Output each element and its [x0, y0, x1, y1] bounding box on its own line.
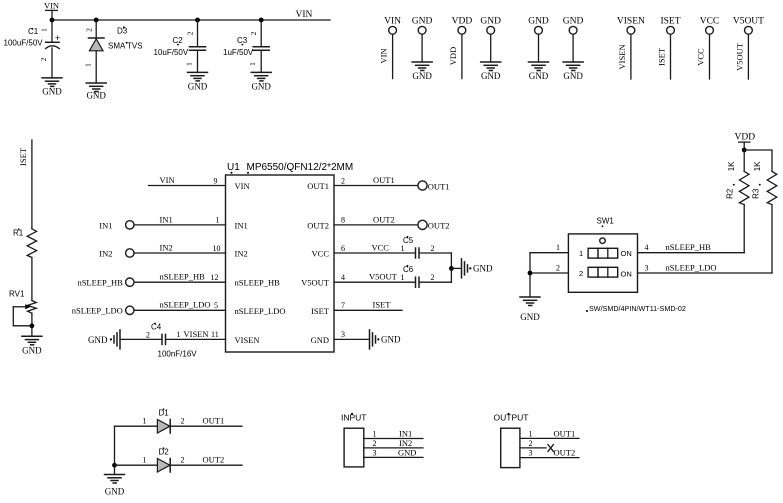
svg-text:2: 2 [146, 331, 150, 340]
svg-text:C3: C3 [237, 36, 248, 45]
svg-text:R3: R3 [752, 188, 761, 199]
svg-text:VIN: VIN [296, 10, 313, 20]
svg-text:1: 1 [84, 63, 93, 67]
svg-text:VISEN: VISEN [617, 44, 627, 69]
svg-text:1: 1 [401, 273, 405, 282]
svg-text:VCC: VCC [312, 249, 330, 259]
svg-text:OUT1: OUT1 [307, 181, 329, 191]
wire VDD to R2 top [743, 150, 745, 171]
svg-text:GND: GND [520, 312, 540, 322]
wire junction to ground [451, 267, 461, 269]
svg-text:RV1: RV1 [9, 290, 25, 299]
svg-text:1: 1 [579, 249, 583, 258]
svg-text:VIN: VIN [160, 175, 175, 185]
wire rail to C2 [197, 20, 199, 47]
svg-text:GND: GND [88, 335, 108, 345]
node nSLEEP_LDO port circle [126, 306, 134, 314]
node nSLEEP_HB port circle [126, 278, 134, 286]
node junction rail/C2 [195, 18, 200, 23]
ground (D1/D2) [105, 475, 125, 497]
wire U1 pin 8 to OUT2 port [334, 224, 418, 226]
wire U1 pin 3 to ground [334, 338, 369, 340]
wire D2 anode [115, 464, 158, 466]
node junction C5/C6 GND [449, 266, 454, 271]
test point GND 2 [480, 16, 501, 62]
wire D1 anode [115, 425, 158, 427]
svg-text:GND: GND [529, 71, 549, 81]
ground (C5/C6) [462, 259, 493, 278]
wire U1 pin 2 to OUT1 port [334, 185, 418, 187]
op-amp/driver IC U1 MP6550 [226, 162, 354, 352]
svg-text:VCC: VCC [696, 48, 706, 66]
node OUT2 port circle [418, 220, 427, 229]
ground (D3) [86, 83, 106, 101]
svg-text:OUT1: OUT1 [428, 181, 450, 191]
ground (RV1) [22, 336, 42, 355]
svg-text:2: 2 [373, 439, 377, 448]
svg-text:2: 2 [181, 456, 185, 465]
switch SW1 [568, 217, 686, 314]
svg-text:2: 2 [186, 31, 195, 35]
svg-text:2: 2 [556, 264, 560, 273]
resistor R3 [752, 161, 777, 205]
svg-text:OUT2: OUT2 [554, 447, 576, 457]
ground (SW1) [520, 297, 540, 322]
svg-text:GND: GND [563, 71, 583, 81]
svg-text:C6: C6 [403, 265, 414, 274]
svg-text:2: 2 [579, 269, 583, 278]
svg-text:VDD: VDD [735, 133, 756, 143]
node junction VDD [742, 148, 747, 153]
svg-text:GND: GND [251, 82, 271, 92]
wire D1 cathode OUT1 [170, 425, 242, 427]
wire OUTPUT pin 3 [520, 457, 579, 459]
svg-text:nSLEEP_LDO: nSLEEP_LDO [72, 306, 123, 316]
svg-text:GND: GND [22, 345, 42, 355]
wire C2 to ground [197, 50, 199, 72]
wire nSLEEP_HB to U1 pin 12 [134, 281, 225, 283]
svg-text:V5OUT: V5OUT [369, 272, 398, 282]
svg-text:nSLEEP_HB: nSLEEP_HB [235, 278, 281, 288]
capacitor C5 [403, 236, 419, 258]
node junction rail/D3 [94, 18, 99, 23]
svg-text:INPUT: INPUT [341, 413, 367, 423]
test point V5OUT [733, 16, 764, 79]
svg-text:OUT1: OUT1 [554, 428, 576, 438]
capacitor C3 [223, 31, 269, 66]
svg-text:3: 3 [529, 448, 533, 457]
svg-text:ON: ON [621, 269, 632, 278]
wire OUTPUT pin 2 stub [520, 447, 546, 449]
svg-text:OUT1: OUT1 [373, 175, 395, 185]
wire rail to D3 [95, 20, 97, 38]
resistor R2 [726, 161, 749, 205]
ground (VISEN row, left) [88, 330, 120, 349]
wire ground to C4 [121, 338, 162, 340]
svg-text:VCC: VCC [372, 242, 390, 252]
svg-text:VISEN: VISEN [235, 335, 260, 345]
svg-text:GND: GND [412, 71, 432, 81]
svg-text:GND: GND [563, 16, 584, 26]
svg-text:SW1: SW1 [597, 217, 615, 226]
test point VDD [448, 16, 472, 78]
svg-text:C2: C2 [173, 36, 184, 45]
connector J INPUT [341, 413, 367, 467]
svg-text:100uF/50V: 100uF/50V [4, 39, 44, 48]
svg-text:VCC: VCC [700, 16, 720, 26]
wire VIN rail [52, 19, 330, 21]
svg-text:10: 10 [213, 244, 221, 253]
svg-text:1: 1 [216, 216, 220, 225]
svg-text:OUT2: OUT2 [203, 455, 225, 465]
svg-text:6: 6 [341, 244, 345, 253]
wire D3 to ground [95, 51, 97, 83]
ground (U1 pin 3) [370, 330, 401, 349]
svg-text:3: 3 [645, 264, 649, 273]
svg-text:C5: C5 [403, 236, 414, 245]
svg-text:VISEN: VISEN [184, 329, 209, 339]
svg-text:R2: R2 [726, 188, 735, 199]
ground (C2) [188, 72, 208, 91]
svg-text:4: 4 [341, 273, 345, 282]
svg-text:2: 2 [431, 273, 435, 282]
svg-text:GND: GND [105, 487, 125, 497]
node IN1 port circle [126, 221, 134, 229]
wire IN1 to U1 pin 1 [134, 224, 225, 226]
svg-text:1: 1 [40, 28, 49, 32]
test point VIN [379, 16, 402, 78]
ground (C1) [42, 78, 62, 97]
svg-text:1K: 1K [753, 161, 762, 171]
wire RV1 to ground [31, 313, 33, 336]
svg-text:2: 2 [181, 417, 185, 426]
wire D1/D2 left tie [114, 426, 116, 474]
svg-text:3: 3 [341, 330, 345, 339]
svg-text:GND: GND [86, 91, 106, 101]
wire SW1 pin 2 [530, 272, 568, 274]
svg-text:nSLEEP_HB: nSLEEP_HB [666, 242, 712, 252]
wire C3 to ground [260, 50, 262, 72]
svg-text:IN2: IN2 [99, 248, 112, 258]
svg-text:VDD: VDD [448, 47, 458, 65]
svg-text:OUT1: OUT1 [203, 416, 225, 426]
svg-text:1: 1 [401, 244, 405, 253]
svg-text:12: 12 [211, 273, 219, 282]
wire rail to C1 [51, 20, 53, 42]
node OUT1 port circle [418, 181, 427, 190]
wire SW1 left tie to ground [529, 253, 531, 297]
svg-text:+: + [55, 33, 60, 43]
svg-text:1: 1 [529, 429, 533, 438]
no-connect X (OUTPUT pin 2) [548, 445, 553, 452]
svg-text:GND: GND [188, 82, 208, 92]
svg-text:V5OUT: V5OUT [734, 42, 744, 71]
wire INPUT pin 1 [364, 438, 423, 440]
svg-text:U1: U1 [227, 162, 240, 173]
svg-text:2: 2 [85, 28, 94, 32]
node junction rail/C1 [50, 18, 55, 23]
svg-text:2: 2 [39, 57, 48, 61]
wire C4 to U1 pin 11 [166, 338, 226, 340]
svg-text:ISET: ISET [311, 306, 330, 316]
wire ISET stub (left branch) [31, 140, 33, 229]
svg-text:5: 5 [214, 301, 218, 310]
connector J OUTPUT [494, 413, 529, 468]
resistor R1 [13, 228, 37, 257]
svg-text:VIN: VIN [235, 181, 250, 191]
wire rail to C3 [260, 20, 262, 47]
svg-text:VIN: VIN [44, 1, 59, 11]
svg-text:MP6550/QFN12/2*2MM: MP6550/QFN12/2*2MM [247, 162, 354, 173]
node junction D2 anode [112, 463, 117, 468]
svg-text:OUT2: OUT2 [428, 221, 450, 231]
svg-text:ISET: ISET [657, 47, 667, 66]
svg-text:nSLEEP_HB: nSLEEP_HB [77, 278, 123, 288]
svg-text:ISET: ISET [18, 147, 28, 166]
test point VCC [696, 16, 720, 79]
wire nSLEEP_LDO to U1 pin 5 [134, 309, 225, 311]
svg-text:nSLEEP_LDO: nSLEEP_LDO [666, 263, 717, 273]
svg-text:GND: GND [473, 264, 493, 274]
svg-text:nSLEEP_LDO: nSLEEP_LDO [235, 306, 286, 316]
svg-text:IN2: IN2 [160, 242, 173, 252]
wire SW1 pin 4 to R2 [638, 252, 745, 254]
wire R3 to SW1 pin 3 row [771, 205, 773, 273]
wire D2 cathode OUT2 [170, 464, 242, 466]
svg-text:1uF/50V: 1uF/50V [223, 48, 254, 57]
wire INPUT pin 2 [364, 447, 423, 449]
svg-text:VISEN: VISEN [617, 16, 645, 26]
svg-text:1: 1 [177, 330, 181, 339]
power symbol VIN (top-left) [44, 1, 59, 21]
node junction SW1 pins 1/2 [528, 271, 533, 276]
test point ISET [657, 16, 681, 79]
test point GND 1 [412, 16, 433, 62]
svg-text:VIN: VIN [379, 48, 389, 63]
svg-text:GND: GND [311, 335, 329, 345]
svg-text:V5OUT: V5OUT [733, 16, 764, 26]
wire C5 to GND node [419, 252, 451, 254]
svg-text:2: 2 [431, 244, 435, 253]
svg-text:10uF/50V: 10uF/50V [154, 48, 189, 57]
svg-text:IN1: IN1 [160, 214, 173, 224]
svg-text:C4: C4 [151, 323, 162, 332]
svg-text:IN2: IN2 [399, 438, 412, 448]
svg-text:7: 7 [341, 301, 345, 310]
svg-text:2: 2 [529, 439, 533, 448]
wire OUTPUT pin 1 [520, 437, 579, 439]
svg-text:ISET: ISET [373, 300, 392, 310]
wire VIN to U1 pin 9 [148, 185, 225, 187]
wire INPUT pin 3 [364, 456, 423, 458]
diode D2 [143, 447, 185, 472]
svg-text:IN1: IN1 [99, 220, 112, 230]
svg-text:V5OUT: V5OUT [301, 278, 330, 288]
svg-text:IN2: IN2 [235, 249, 248, 259]
svg-text:nSLEEP_LDO: nSLEEP_LDO [160, 300, 211, 310]
wire U1 pin 7 ISET stub [334, 309, 402, 311]
svg-text:GND: GND [42, 87, 62, 97]
ground (tp2) [481, 62, 501, 81]
capacitor C1 [4, 27, 61, 61]
svg-text:IN1: IN1 [235, 220, 248, 230]
test point VISEN [617, 16, 645, 79]
svg-text:D3: D3 [117, 27, 128, 36]
ground (tp3) [529, 62, 549, 81]
wire R1 to RV1 [31, 258, 33, 301]
wire C5/C6 vertical tie [450, 253, 452, 282]
svg-text:3: 3 [373, 448, 377, 457]
svg-text:GND: GND [398, 447, 416, 457]
test point GND 3 [528, 16, 549, 62]
wire C1 to ground [51, 48, 53, 78]
svg-text:4: 4 [645, 243, 649, 252]
wire SW1 pin 1 [530, 252, 568, 254]
svg-text:GND: GND [480, 16, 501, 26]
ground (tp1) [412, 62, 432, 81]
svg-text:1: 1 [143, 456, 147, 465]
node junction rail/C3 [259, 18, 264, 23]
node IN2 port circle [126, 249, 134, 257]
svg-text:9: 9 [214, 176, 218, 185]
svg-text:GND: GND [481, 71, 501, 81]
node junction RV1 wiper [30, 323, 35, 328]
svg-text:11: 11 [211, 330, 219, 339]
svg-text:nSLEEP_HB: nSLEEP_HB [160, 272, 206, 282]
svg-text:2: 2 [249, 31, 258, 35]
svg-text:1: 1 [185, 62, 194, 66]
svg-text:8: 8 [341, 216, 345, 225]
ground (tp4) [563, 62, 583, 81]
svg-text:OUT2: OUT2 [373, 214, 395, 224]
capacitor C2 [154, 31, 206, 66]
svg-text:1K: 1K [727, 161, 736, 171]
svg-text:GND: GND [412, 16, 433, 26]
ground (C3) [251, 72, 271, 91]
svg-text:C1: C1 [28, 27, 39, 36]
svg-text:1: 1 [556, 243, 560, 252]
svg-text:SMA TVS: SMA TVS [108, 41, 143, 50]
wire VDD to R3 top [744, 150, 772, 171]
wire C6 to GND node [419, 281, 451, 283]
svg-text:1: 1 [248, 62, 257, 66]
svg-text:ISET: ISET [660, 16, 680, 26]
svg-text:1: 1 [373, 429, 377, 438]
svg-text:1: 1 [143, 417, 147, 426]
svg-text:VDD: VDD [452, 16, 473, 26]
test point GND 4 [563, 16, 584, 62]
svg-text:OUT2: OUT2 [307, 220, 329, 230]
wire IN2 to U1 pin 10 [134, 252, 225, 254]
potentiometer RV1 [9, 290, 36, 326]
wire R2 to SW1 pin 4 row [743, 205, 745, 253]
wire SW1 pin 3 to R3 [638, 272, 773, 274]
svg-text:SW/SMD/4PIN/WT11-SMD-02: SW/SMD/4PIN/WT11-SMD-02 [589, 304, 686, 313]
svg-text:2: 2 [341, 176, 345, 185]
transistor-protection TVS diode D3 [84, 26, 143, 66]
svg-text:OUTPUT: OUTPUT [494, 413, 529, 423]
svg-text:VIN: VIN [384, 16, 401, 26]
svg-text:GND: GND [528, 16, 549, 26]
capacitor C4 [151, 323, 197, 359]
diode D1 [143, 408, 185, 433]
wire U1 pin 6 to C5 [334, 252, 415, 254]
svg-text:100nF/16V: 100nF/16V [158, 350, 198, 359]
wire U1 pin 4 to C6 [334, 281, 415, 283]
power symbol VDD [735, 133, 756, 150]
svg-text:GND: GND [381, 335, 401, 345]
capacitor C6 [403, 265, 419, 287]
svg-text:ON: ON [621, 249, 632, 258]
